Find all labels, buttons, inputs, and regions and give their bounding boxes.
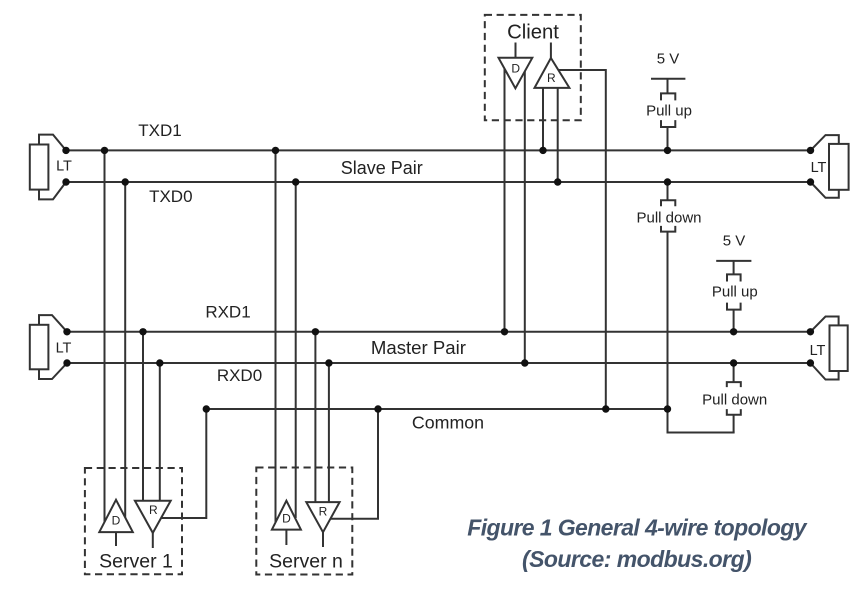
resistor pull-up 1 bbox=[661, 93, 675, 127]
client box bbox=[485, 15, 581, 120]
wire server n R stub bbox=[322, 532, 324, 547]
receiver R client bbox=[535, 58, 570, 88]
wire RXD1 drop to server 1 R bbox=[142, 332, 144, 501]
wire client R input A from TXD1 bbox=[542, 88, 544, 150]
receiver R server n bbox=[306, 502, 339, 532]
resistor pull-down 1 bbox=[661, 200, 675, 231]
wire client D input stub bbox=[515, 43, 517, 58]
svg-text:D: D bbox=[511, 61, 520, 75]
wire 5V bar 2 to pull-up 2 bbox=[733, 261, 735, 275]
svg-text:D: D bbox=[112, 514, 121, 528]
svg-text:LT: LT bbox=[56, 159, 72, 175]
wire client D output B to RXD0 bbox=[524, 66, 526, 363]
svg-text:Server n: Server n bbox=[269, 551, 343, 573]
wire TXD1 drop to server 1 D bbox=[104, 150, 106, 524]
wire pull-down 1 to common junction and bottom link bbox=[667, 232, 669, 433]
svg-text:Master Pair: Master Pair bbox=[371, 337, 466, 358]
svg-text:D: D bbox=[282, 511, 291, 525]
wire client R output stub bbox=[550, 43, 552, 59]
svg-text:TXD1: TXD1 bbox=[138, 121, 181, 140]
wire client common tap to Common bbox=[558, 70, 606, 409]
svg-text:LT: LT bbox=[56, 341, 72, 357]
wire RXD1 drop to server n R bbox=[314, 332, 316, 502]
terminator LT1 top-left bbox=[30, 135, 66, 200]
wire TXD0 drop to server n D bbox=[295, 182, 297, 518]
svg-text:Pull up: Pull up bbox=[646, 102, 692, 119]
receiver R server 1 bbox=[135, 501, 171, 533]
wire server 1 R stub bbox=[152, 533, 154, 548]
wire pull-up 2 to RXD1 bbox=[733, 310, 735, 332]
svg-text:RXD1: RXD1 bbox=[205, 302, 250, 321]
junction nodes on TXD1 bbox=[62, 147, 814, 154]
driver D client bbox=[499, 58, 533, 89]
wire TXD0 (Slave Pair line 0) bbox=[66, 181, 811, 183]
resistor pull-up 2 bbox=[727, 274, 741, 309]
svg-text:5 V: 5 V bbox=[723, 233, 746, 250]
junction nodes on RXD0 bbox=[63, 359, 814, 366]
wire RXD0 drop to server n R bbox=[328, 363, 330, 502]
terminator LT4 mid-right bbox=[810, 317, 847, 380]
svg-text:(Source: modbus.org): (Source: modbus.org) bbox=[522, 546, 751, 572]
terminator LT2 mid-left bbox=[30, 315, 67, 379]
wire bottom link between pull-down chains bbox=[667, 432, 735, 434]
svg-text:LT: LT bbox=[810, 343, 826, 359]
junction nodes on TXD0 bbox=[62, 178, 814, 185]
wire RXD1 (Master Pair line 1) bbox=[67, 331, 810, 333]
wire Common bus bbox=[206, 408, 667, 410]
svg-text:R: R bbox=[319, 504, 328, 518]
wire RXD0 (Master Pair line 0) bbox=[67, 362, 810, 364]
5V supply 1 bar bbox=[651, 78, 685, 80]
svg-text:Pull up: Pull up bbox=[712, 283, 758, 300]
junction nodes on RXD1 bbox=[63, 328, 814, 335]
wire pull-up 1 to TXD1 bbox=[667, 127, 669, 150]
driver D server 1 bbox=[99, 500, 133, 532]
wire TXD1 drop to server n D bbox=[275, 150, 277, 522]
terminator LT3 top-right bbox=[811, 135, 849, 198]
wire RXD0 to pull-down 2 bbox=[733, 363, 735, 382]
svg-text:R: R bbox=[149, 503, 158, 517]
svg-text:Figure 1 General 4-wire topolo: Figure 1 General 4-wire topology bbox=[467, 515, 807, 541]
server n box bbox=[256, 468, 352, 575]
svg-text:Client: Client bbox=[507, 21, 559, 43]
wire Common tap to server n R bbox=[330, 409, 378, 519]
resistor pull-down 2 bbox=[727, 382, 741, 415]
wire RXD0 drop to server 1 R bbox=[159, 363, 161, 501]
svg-text:Slave Pair: Slave Pair bbox=[341, 158, 423, 178]
wire TXD0 to pull-down 1 bbox=[667, 182, 669, 200]
svg-text:5 V: 5 V bbox=[657, 51, 680, 68]
server 1 box bbox=[85, 468, 182, 574]
wire 5V bar to pull-up 1 bbox=[667, 79, 669, 94]
svg-text:TXD0: TXD0 bbox=[149, 187, 192, 206]
wire client D output A to RXD1 bbox=[504, 66, 506, 332]
wire server 1 D stub bbox=[115, 532, 117, 546]
wire Common tap to server 1 R bbox=[161, 409, 206, 518]
svg-text:Server 1: Server 1 bbox=[99, 551, 173, 573]
svg-text:LT: LT bbox=[811, 160, 827, 176]
driver D server n bbox=[272, 501, 301, 530]
5V supply 2 bar bbox=[716, 260, 751, 262]
svg-text:Pull down: Pull down bbox=[636, 210, 701, 227]
wire TXD1 (Slave Pair line 1) bbox=[66, 149, 811, 151]
wire server n D stub bbox=[285, 530, 287, 545]
svg-text:Common: Common bbox=[412, 413, 484, 433]
svg-text:RXD0: RXD0 bbox=[217, 366, 262, 385]
svg-text:Pull down: Pull down bbox=[702, 392, 767, 409]
wire TXD0 drop to server 1 D bbox=[124, 182, 126, 520]
wire client R input B from TXD0 bbox=[557, 88, 559, 182]
svg-text:R: R bbox=[547, 71, 556, 85]
junction nodes on Common bbox=[203, 405, 672, 412]
wire pull-down 2 to bottom link bbox=[733, 415, 735, 433]
